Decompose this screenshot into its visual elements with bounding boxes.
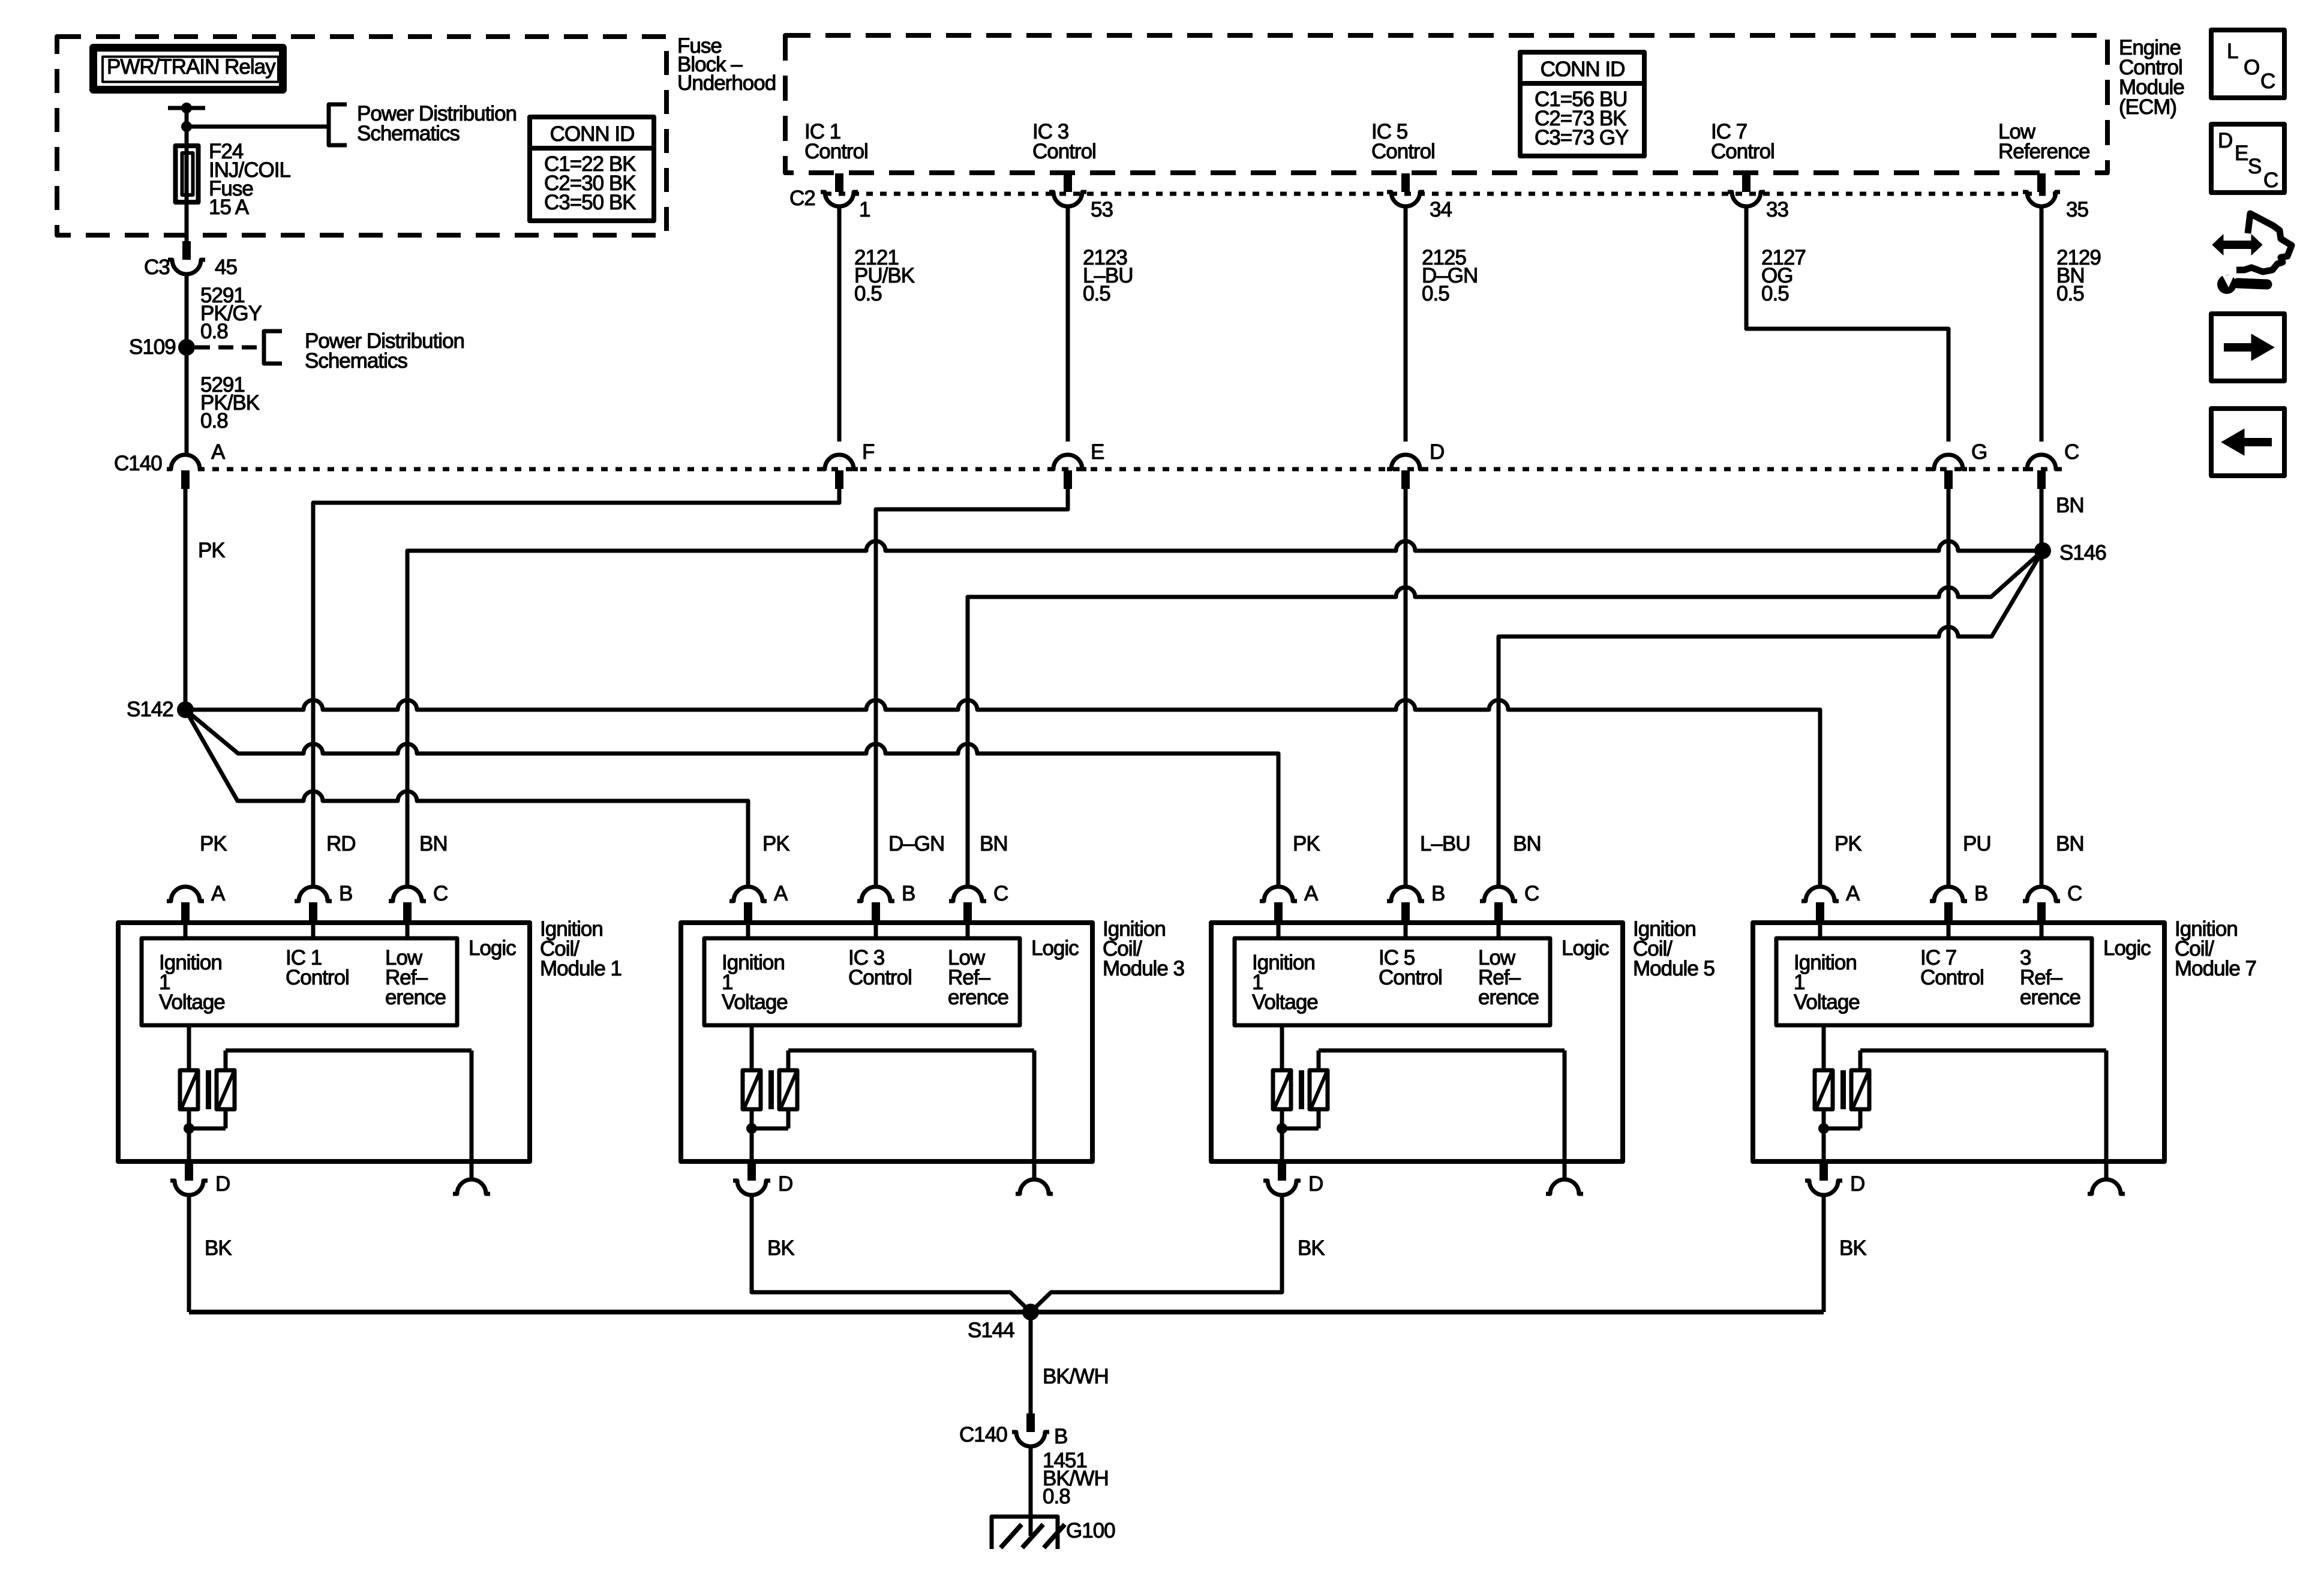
- relay K PWR/TRAIN Relay: [94, 48, 283, 90]
- svg-text:Logic: Logic: [2103, 936, 2151, 960]
- splice S146: [2034, 541, 2106, 565]
- svg-text:PU: PU: [1963, 832, 1991, 855]
- ignition coil/module 1 box: [118, 923, 530, 1161]
- module 7 pin A connector: [1801, 882, 1860, 921]
- connector C2 pin 53: [1049, 173, 1113, 221]
- module 1 pin B connector: [295, 882, 352, 921]
- fuse block - underhood (dashed box): [57, 37, 666, 235]
- svg-text:BK: BK: [767, 1236, 794, 1260]
- svg-text:Logic: Logic: [1031, 936, 1079, 960]
- svg-text:E: E: [1091, 440, 1104, 464]
- module 3 coil core bar: [768, 1070, 774, 1109]
- svg-text:D: D: [1308, 1172, 1323, 1196]
- engine control module ECM (dashed box): [785, 35, 2107, 173]
- wire 5291 PK/BK 0.8: [187, 347, 260, 456]
- svg-text:D: D: [1850, 1172, 1864, 1196]
- svg-text:A: A: [211, 440, 226, 464]
- connector C2 dotted line: [789, 187, 2056, 210]
- svg-text:0.5: 0.5: [854, 282, 882, 305]
- module 5 inner labels: [1252, 936, 1609, 1014]
- svg-text:C: C: [433, 882, 448, 905]
- splice S144: [968, 1304, 1039, 1342]
- svg-text:S144: S144: [968, 1319, 1014, 1342]
- label Fuse Block - Underhood: [677, 34, 776, 95]
- wire fuse to C3: [185, 202, 189, 242]
- wire 2127 OG 0.5 (jogs right): [1746, 206, 1948, 442]
- ignition coil/module 5 box: [1211, 923, 1623, 1161]
- svg-text:D: D: [2218, 129, 2232, 152]
- svg-text:34: 34: [1430, 198, 1452, 221]
- svg-text:PWR/TRAIN Relay: PWR/TRAIN Relay: [107, 55, 276, 79]
- svg-text:D: D: [215, 1172, 230, 1196]
- icon wrench and boundary: [2212, 214, 2292, 294]
- module 7 name label: [2175, 917, 2256, 980]
- svg-text:G100: G100: [1066, 1519, 1115, 1542]
- svg-text:G: G: [1971, 440, 1987, 464]
- svg-text:C3: C3: [144, 256, 170, 279]
- svg-text:0.5: 0.5: [1761, 282, 1789, 305]
- svg-text:(ECM): (ECM): [2119, 95, 2176, 119]
- module 3 primary coil: [743, 1070, 761, 1109]
- connector C2 pin 1: [821, 173, 870, 221]
- wire RD from C140 F to module1 B: [313, 489, 839, 887]
- wire BN from C140 C to S146 to module7 C: [2041, 489, 2084, 887]
- svg-text:BK: BK: [205, 1236, 232, 1260]
- connector C140 pin E: [1049, 440, 1104, 489]
- module 5 pin B connector: [1387, 882, 1445, 921]
- wire 2125 D-GN 0.5: [1406, 206, 1478, 442]
- wire BN bus module3 C to S146: [968, 551, 2043, 887]
- ECM pin labels: [804, 120, 2089, 163]
- wire PU from C140 G to module7 B: [1947, 489, 1951, 887]
- svg-text:C: C: [2263, 169, 2278, 192]
- svg-text:C: C: [2260, 70, 2275, 93]
- icon forward arrow box: [2211, 314, 2284, 381]
- svg-text:erence: erence: [948, 986, 1008, 1009]
- icon DESC box: [2211, 124, 2284, 193]
- wire PK bus S142 to module3 A: [185, 710, 748, 887]
- module 1 pin A connector: [167, 882, 226, 921]
- wire BN bus module5 C to S146: [1499, 551, 2043, 887]
- svg-text:15 A: 15 A: [209, 196, 250, 219]
- connector C140 pin F: [821, 440, 874, 489]
- svg-text:Control: Control: [1371, 140, 1435, 163]
- module 7 secondary output terminal: [2088, 1179, 2125, 1194]
- svg-text:A: A: [1846, 882, 1860, 905]
- wire PK bus S142 to module5 A: [185, 710, 1278, 887]
- svg-text:PK: PK: [1293, 832, 1320, 855]
- svg-text:B: B: [902, 882, 915, 905]
- wire BK ground bus: [189, 1310, 1824, 1314]
- svg-text:Control: Control: [1711, 140, 1774, 163]
- module 5 pin A connector: [1260, 882, 1319, 921]
- svg-text:B: B: [1054, 1425, 1067, 1448]
- svg-text:BN: BN: [419, 832, 448, 855]
- module 1 name label: [540, 917, 621, 980]
- svg-text:BK: BK: [1839, 1236, 1866, 1260]
- svg-text:B: B: [339, 882, 352, 905]
- module 3 internal wiring: [746, 923, 1034, 1179]
- svg-text:A: A: [774, 882, 788, 905]
- module 1 internal wiring: [184, 923, 472, 1179]
- svg-text:Control: Control: [1032, 140, 1096, 163]
- wire 2121 PU/BK 0.5: [839, 206, 915, 442]
- module 3 pin C connector: [949, 882, 1008, 921]
- svg-text:CONN ID: CONN ID: [550, 122, 635, 146]
- svg-text:Control: Control: [286, 966, 349, 989]
- svg-text:Schematics: Schematics: [357, 122, 460, 145]
- svg-text:0.5: 0.5: [1422, 282, 1449, 305]
- svg-text:Module 3: Module 3: [1103, 957, 1184, 980]
- relay output terminal bar: [168, 103, 205, 113]
- svg-text:Voltage: Voltage: [1794, 990, 1860, 1014]
- wire relay to fuse F24: [185, 108, 189, 146]
- junction to power distribution schematics: [181, 121, 329, 132]
- conn id table fuse block: [530, 117, 654, 221]
- svg-text:A: A: [1304, 882, 1319, 905]
- svg-text:C: C: [993, 882, 1008, 905]
- svg-text:O: O: [2244, 56, 2259, 79]
- svg-text:erence: erence: [1478, 986, 1539, 1009]
- svg-text:BN: BN: [1513, 832, 1541, 855]
- module 3 name label: [1103, 917, 1184, 980]
- icon back arrow box: [2211, 409, 2284, 476]
- svg-text:Logic: Logic: [1562, 936, 1609, 960]
- connector C2 pin 34: [1387, 173, 1452, 221]
- wire 2129 BN 0.5: [2041, 206, 2101, 442]
- module 7 pin B connector: [1930, 882, 1987, 921]
- wire BK/WH S144 to C140 B: [1031, 1312, 1109, 1413]
- svg-text:Voltage: Voltage: [722, 990, 788, 1014]
- module 1 primary coil: [180, 1070, 198, 1109]
- wire 1451 BK/WH 0.8: [1031, 1446, 1109, 1536]
- svg-text:45: 45: [215, 256, 237, 279]
- wire L-BU from C140 D to module5 B: [1404, 489, 1408, 887]
- wire PK from C140 A to S142: [185, 489, 225, 710]
- svg-text:F: F: [862, 440, 874, 464]
- module 3 inner labels: [722, 936, 1079, 1014]
- svg-text:1: 1: [859, 198, 870, 221]
- svg-text:C2: C2: [789, 187, 815, 210]
- fuse F24 INJ/COIL 15 A: [176, 140, 291, 219]
- connector C140 pin A: [167, 440, 226, 489]
- ignition coil/module 3 box: [681, 923, 1092, 1161]
- svg-text:D–GN: D–GN: [888, 832, 944, 855]
- module 1 coil core bar: [206, 1070, 211, 1109]
- svg-text:Module 1: Module 1: [540, 957, 621, 980]
- svg-text:C: C: [1524, 882, 1539, 905]
- wire BK module5 D to S144: [1031, 1195, 1325, 1312]
- connector C140 pin C: [2023, 440, 2079, 489]
- connector C140 pin G: [1930, 440, 1987, 489]
- module 7 pin D connector: [1805, 1164, 1864, 1196]
- module 5 primary coil: [1273, 1070, 1291, 1109]
- module 1 pin C connector: [389, 882, 448, 921]
- module 1 inner labels: [159, 936, 516, 1014]
- icon LOC box: [2211, 30, 2284, 98]
- connector C2 pin 33: [1728, 173, 1788, 221]
- conn id table ECM: [1520, 52, 1644, 156]
- svg-text:BK/WH: BK/WH: [1043, 1365, 1109, 1388]
- wire BK module1 D to S144 bus: [189, 1195, 232, 1312]
- svg-text:B: B: [1431, 882, 1445, 905]
- svg-text:B: B: [1974, 882, 1987, 905]
- svg-text:Control: Control: [848, 966, 912, 989]
- wire BN bus module1 C to S146: [407, 541, 2043, 887]
- module 1 logic inner box: [142, 938, 457, 1025]
- module 5 coil core bar: [1299, 1070, 1304, 1109]
- svg-text:53: 53: [1091, 198, 1113, 221]
- svg-text:PK: PK: [198, 539, 225, 562]
- svg-text:Module 5: Module 5: [1633, 957, 1715, 980]
- svg-text:Control: Control: [1379, 966, 1442, 989]
- ground G100: [992, 1517, 1115, 1549]
- module 7 inner labels: [1794, 936, 2151, 1014]
- svg-text:Logic: Logic: [469, 936, 516, 960]
- wire color labels above module pins: [200, 832, 2084, 855]
- svg-text:Reference: Reference: [1998, 140, 2089, 163]
- ignition coil/module 7 box: [1753, 923, 2164, 1161]
- svg-text:erence: erence: [385, 986, 446, 1009]
- wire BK module7 D to S144 bus: [1824, 1195, 1866, 1312]
- module 7 coil core bar: [1840, 1070, 1846, 1109]
- svg-text:BK: BK: [1298, 1236, 1325, 1260]
- svg-text:33: 33: [1766, 198, 1788, 221]
- svg-text:D: D: [778, 1172, 792, 1196]
- svg-text:Control: Control: [1920, 966, 1984, 989]
- svg-text:Module 7: Module 7: [2175, 957, 2256, 980]
- module 1 secondary output terminal: [453, 1179, 490, 1194]
- svg-text:C3=50 BK: C3=50 BK: [544, 191, 636, 214]
- module 7 secondary coil: [1851, 1070, 1869, 1109]
- module 5 internal wiring: [1277, 923, 1565, 1179]
- svg-text:C: C: [2064, 440, 2079, 464]
- svg-text:PK: PK: [1834, 832, 1861, 855]
- svg-text:Schematics: Schematics: [305, 349, 407, 373]
- module 3 pin A connector: [729, 882, 788, 921]
- module 5 pin C connector: [1480, 882, 1539, 921]
- module 5 logic inner box: [1235, 938, 1550, 1025]
- svg-text:BN: BN: [980, 832, 1008, 855]
- svg-text:S146: S146: [2059, 541, 2106, 565]
- svg-text:C140: C140: [959, 1423, 1007, 1446]
- wire D-GN from C140 E to module3 B: [876, 489, 1068, 887]
- module 3 pin B connector: [857, 882, 915, 921]
- svg-text:D: D: [1430, 440, 1444, 464]
- connector C3 pin 45: [144, 241, 237, 279]
- module 5 secondary coil: [1310, 1070, 1328, 1109]
- svg-text:CONN ID: CONN ID: [1541, 58, 1625, 81]
- svg-text:0.8: 0.8: [1043, 1485, 1070, 1508]
- module 3 secondary output terminal: [1016, 1179, 1053, 1194]
- svg-text:Voltage: Voltage: [159, 990, 225, 1014]
- module 1 secondary coil: [217, 1070, 235, 1109]
- module 3 logic inner box: [704, 938, 1020, 1025]
- module 5 pin D connector: [1263, 1164, 1323, 1196]
- svg-text:C140: C140: [114, 452, 162, 475]
- module 1 pin D connector: [170, 1164, 230, 1196]
- svg-text:S142: S142: [127, 698, 173, 721]
- module 5 secondary output terminal: [1546, 1179, 1583, 1194]
- svg-text:C3=73 GY: C3=73 GY: [1535, 126, 1629, 149]
- svg-text:E: E: [2235, 142, 2248, 165]
- svg-text:RD: RD: [326, 832, 356, 855]
- svg-text:BN: BN: [2056, 832, 2084, 855]
- svg-text:erence: erence: [2020, 986, 2080, 1009]
- svg-text:A: A: [211, 882, 226, 905]
- connector C140 pin D: [1387, 440, 1444, 489]
- svg-text:PK: PK: [762, 832, 789, 855]
- svg-text:35: 35: [2066, 198, 2088, 221]
- bracket note Power Distribution Schematics (relay): [329, 102, 517, 145]
- module 3 secondary coil: [779, 1070, 797, 1109]
- svg-text:BN: BN: [2056, 494, 2084, 517]
- module 7 pin C connector: [2023, 882, 2082, 921]
- svg-text:0.8: 0.8: [200, 409, 228, 433]
- wire 5291 PK/GY 0.8: [187, 274, 262, 347]
- splice S109: [129, 329, 464, 373]
- svg-text:0.5: 0.5: [2056, 282, 2084, 305]
- svg-text:Control: Control: [804, 140, 868, 163]
- connector C140 pin B: [959, 1413, 1067, 1448]
- label Engine Control Module (ECM): [2119, 36, 2184, 119]
- svg-text:S: S: [2248, 155, 2261, 178]
- module 7 internal wiring: [1818, 923, 2106, 1179]
- svg-text:0.5: 0.5: [1083, 282, 1110, 305]
- module 5 name label: [1633, 917, 1715, 980]
- module 7 logic inner box: [1776, 938, 2092, 1025]
- svg-text:L: L: [2227, 40, 2238, 63]
- splice S142: [127, 698, 194, 721]
- svg-text:C: C: [2067, 882, 2082, 905]
- svg-text:Voltage: Voltage: [1252, 990, 1318, 1014]
- wire BK module3 D to S144: [752, 1195, 1031, 1312]
- wire 2123 L-BU 0.5: [1068, 206, 1133, 442]
- connector C2 pin 35: [2023, 173, 2088, 221]
- svg-text:S109: S109: [129, 335, 176, 359]
- svg-text:PK: PK: [200, 832, 227, 855]
- wire PK bus S142 to module7 A: [185, 700, 1820, 887]
- svg-text:Underhood: Underhood: [677, 71, 776, 95]
- svg-text:0.8: 0.8: [200, 320, 228, 343]
- module 7 primary coil: [1815, 1070, 1833, 1109]
- svg-text:L–BU: L–BU: [1420, 832, 1470, 855]
- module 3 pin D connector: [733, 1164, 792, 1196]
- connector C140 dotted line: [114, 452, 2070, 475]
